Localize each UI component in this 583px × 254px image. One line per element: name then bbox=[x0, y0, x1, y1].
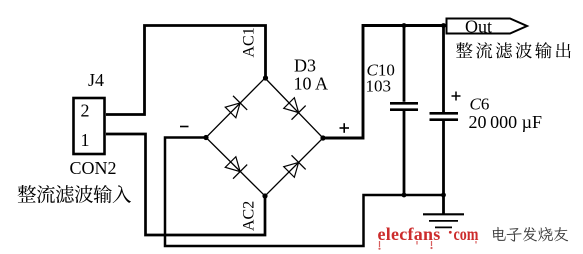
diode D3b (AC1 to plus) bbox=[282, 96, 306, 120]
wire: bridge plus output riser to top right rail bbox=[323, 26, 447, 139]
svg-text:20 000 µF: 20 000 µF bbox=[469, 112, 543, 132]
junction C6 top bbox=[441, 23, 446, 28]
ground symbol bbox=[442, 195, 445, 214]
node AC1 junction dot bbox=[263, 75, 268, 80]
svg-text:AC1: AC1 bbox=[241, 27, 258, 57]
svg-text:AC2: AC2 bbox=[241, 201, 258, 231]
label: rectifier filter input (CJK) bbox=[18, 185, 36, 202]
watermark CJK: dianzi fashaoyou bbox=[493, 227, 506, 241]
svg-text:Out: Out bbox=[465, 17, 492, 37]
plus sign label bbox=[340, 123, 350, 133]
svg-text:10 A: 10 A bbox=[294, 74, 329, 94]
C6 plus polarity mark bbox=[452, 92, 461, 101]
diode D3c (minus to AC2) bbox=[223, 155, 247, 179]
svg-text:com: com bbox=[454, 226, 479, 245]
capacitor C10 wires bbox=[403, 26, 406, 102]
label: rectifier filter output (CJK) bbox=[456, 42, 472, 58]
junction C10 bottom bbox=[402, 193, 407, 198]
elecfans.com watermark bbox=[378, 224, 479, 250]
junction C6 bottom / ground bbox=[441, 193, 446, 198]
svg-text:103: 103 bbox=[366, 77, 392, 96]
wire: J4 pin1 down to bottom rail to bridge AC2 bbox=[106, 134, 265, 235]
capacitor C6 wires bbox=[442, 26, 445, 113]
bridge rectifier D3 diamond bbox=[206, 78, 323, 196]
connector J4 box bbox=[74, 98, 105, 154]
Out port flag bbox=[447, 19, 528, 34]
svg-text:2: 2 bbox=[81, 101, 90, 121]
svg-text:D3: D3 bbox=[294, 56, 316, 76]
junction C10 top bbox=[402, 23, 407, 28]
node plus junction dot bbox=[320, 135, 325, 140]
capacitor C6 plates bbox=[430, 112, 459, 115]
wire: J4 pin2 to top rail to bridge AC1 bbox=[106, 26, 266, 115]
node AC2 junction dot bbox=[262, 193, 267, 198]
diode D3a (minus to AC1) bbox=[223, 96, 247, 120]
minus sign label bbox=[180, 126, 189, 128]
wire: bridge minus output to lower rail to cap ground rail bbox=[165, 138, 444, 247]
svg-text:C6: C6 bbox=[470, 95, 490, 114]
svg-text:J4: J4 bbox=[88, 70, 104, 90]
capacitor C10 plates bbox=[390, 102, 418, 105]
svg-text:CON2: CON2 bbox=[70, 158, 117, 178]
svg-text:1: 1 bbox=[81, 130, 90, 150]
node minus junction dot bbox=[203, 135, 208, 140]
diode D3d (AC2 to plus) bbox=[282, 155, 306, 179]
